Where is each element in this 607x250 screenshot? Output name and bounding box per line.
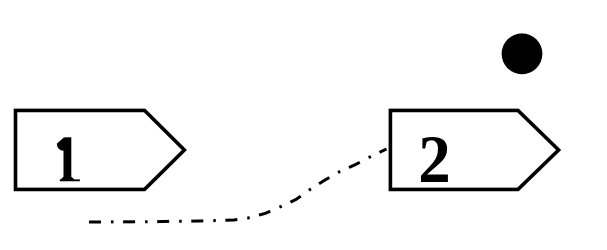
node 1 (arrow box) bbox=[16, 110, 185, 189]
dash-dot trajectory wire bbox=[89, 149, 387, 222]
node 2 (arrow box) bbox=[390, 110, 558, 189]
label 1 bbox=[57, 137, 80, 181]
svg-text:2: 2 bbox=[418, 123, 450, 198]
ball (filled circle) bbox=[502, 33, 543, 74]
